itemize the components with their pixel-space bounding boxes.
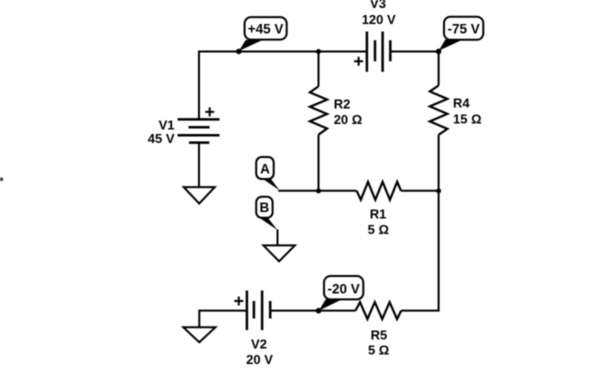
svg-text:A: A — [260, 161, 270, 176]
node label -20 V — [319, 276, 364, 311]
junction dot at +45 V probe on top net — [236, 49, 242, 55]
wire bottom net: V2 left terminal to corner and ground drop — [199, 311, 247, 328]
wire bottom net: R5 left lead to V2 right terminal — [270, 310, 355, 312]
resistor R2 — [310, 86, 327, 134]
ground at V2 — [183, 327, 215, 342]
battery V2 — [234, 291, 270, 331]
junction dot R2 bottom on middle net — [316, 188, 321, 193]
wire R2 top lead — [318, 51, 320, 87]
scan speck at left edge — [0, 178, 3, 182]
svg-text:20 V: 20 V — [246, 352, 273, 365]
resistor R5 — [356, 302, 402, 319]
svg-text:20 Ω: 20 Ω — [334, 112, 363, 127]
node A — [256, 157, 279, 190]
junction dot at -20 V probe on bottom net — [316, 308, 322, 314]
wire V1 bottom plate to ground — [198, 143, 200, 188]
node B — [256, 197, 277, 230]
ground at V1 — [184, 187, 215, 204]
svg-text:45 V: 45 V — [148, 131, 175, 146]
resistor R4 — [430, 86, 448, 135]
node label -75 V — [439, 17, 484, 51]
svg-text:R4: R4 — [453, 96, 470, 111]
svg-text:B: B — [260, 200, 270, 215]
resistor R1 — [357, 182, 401, 200]
svg-text:V3: V3 — [370, 0, 386, 11]
wire middle net: R1 right lead to right node — [401, 190, 439, 192]
svg-text:5 Ω: 5 Ω — [368, 222, 389, 237]
wire top net: V3 right terminal to -75V node and down to R4 — [390, 52, 438, 86]
junction dot at -75 V node — [436, 49, 442, 55]
battery V1 — [178, 107, 220, 142]
wire top net: V3 left terminal to corner to V1 top plate — [199, 52, 367, 120]
wire R4 bottom lead to middle net — [438, 135, 440, 191]
battery V3 — [354, 32, 390, 72]
wire node B to ground — [277, 230, 279, 247]
junction dot R2 top on top net — [316, 49, 321, 54]
ground at node B — [263, 245, 295, 261]
svg-text:-75 V: -75 V — [447, 21, 479, 36]
svg-text:R1: R1 — [370, 207, 387, 222]
svg-text:-20 V: -20 V — [327, 281, 359, 296]
svg-text:R2: R2 — [334, 97, 351, 112]
svg-text:+45 V: +45 V — [248, 22, 284, 37]
svg-text:V2: V2 — [251, 337, 267, 352]
svg-text:5 Ω: 5 Ω — [368, 343, 389, 358]
svg-text:15 Ω: 15 Ω — [453, 111, 482, 126]
svg-text:R5: R5 — [371, 327, 388, 342]
wire middle net: node A to R1 left lead — [278, 190, 356, 192]
junction dot right node on middle net — [436, 188, 441, 193]
svg-text:120 V: 120 V — [362, 12, 396, 27]
node label +45 V — [239, 17, 287, 51]
wire right vertical down to bottom net and R5 right lead — [401, 191, 438, 311]
wire R2 bottom lead to middle net — [318, 135, 320, 191]
